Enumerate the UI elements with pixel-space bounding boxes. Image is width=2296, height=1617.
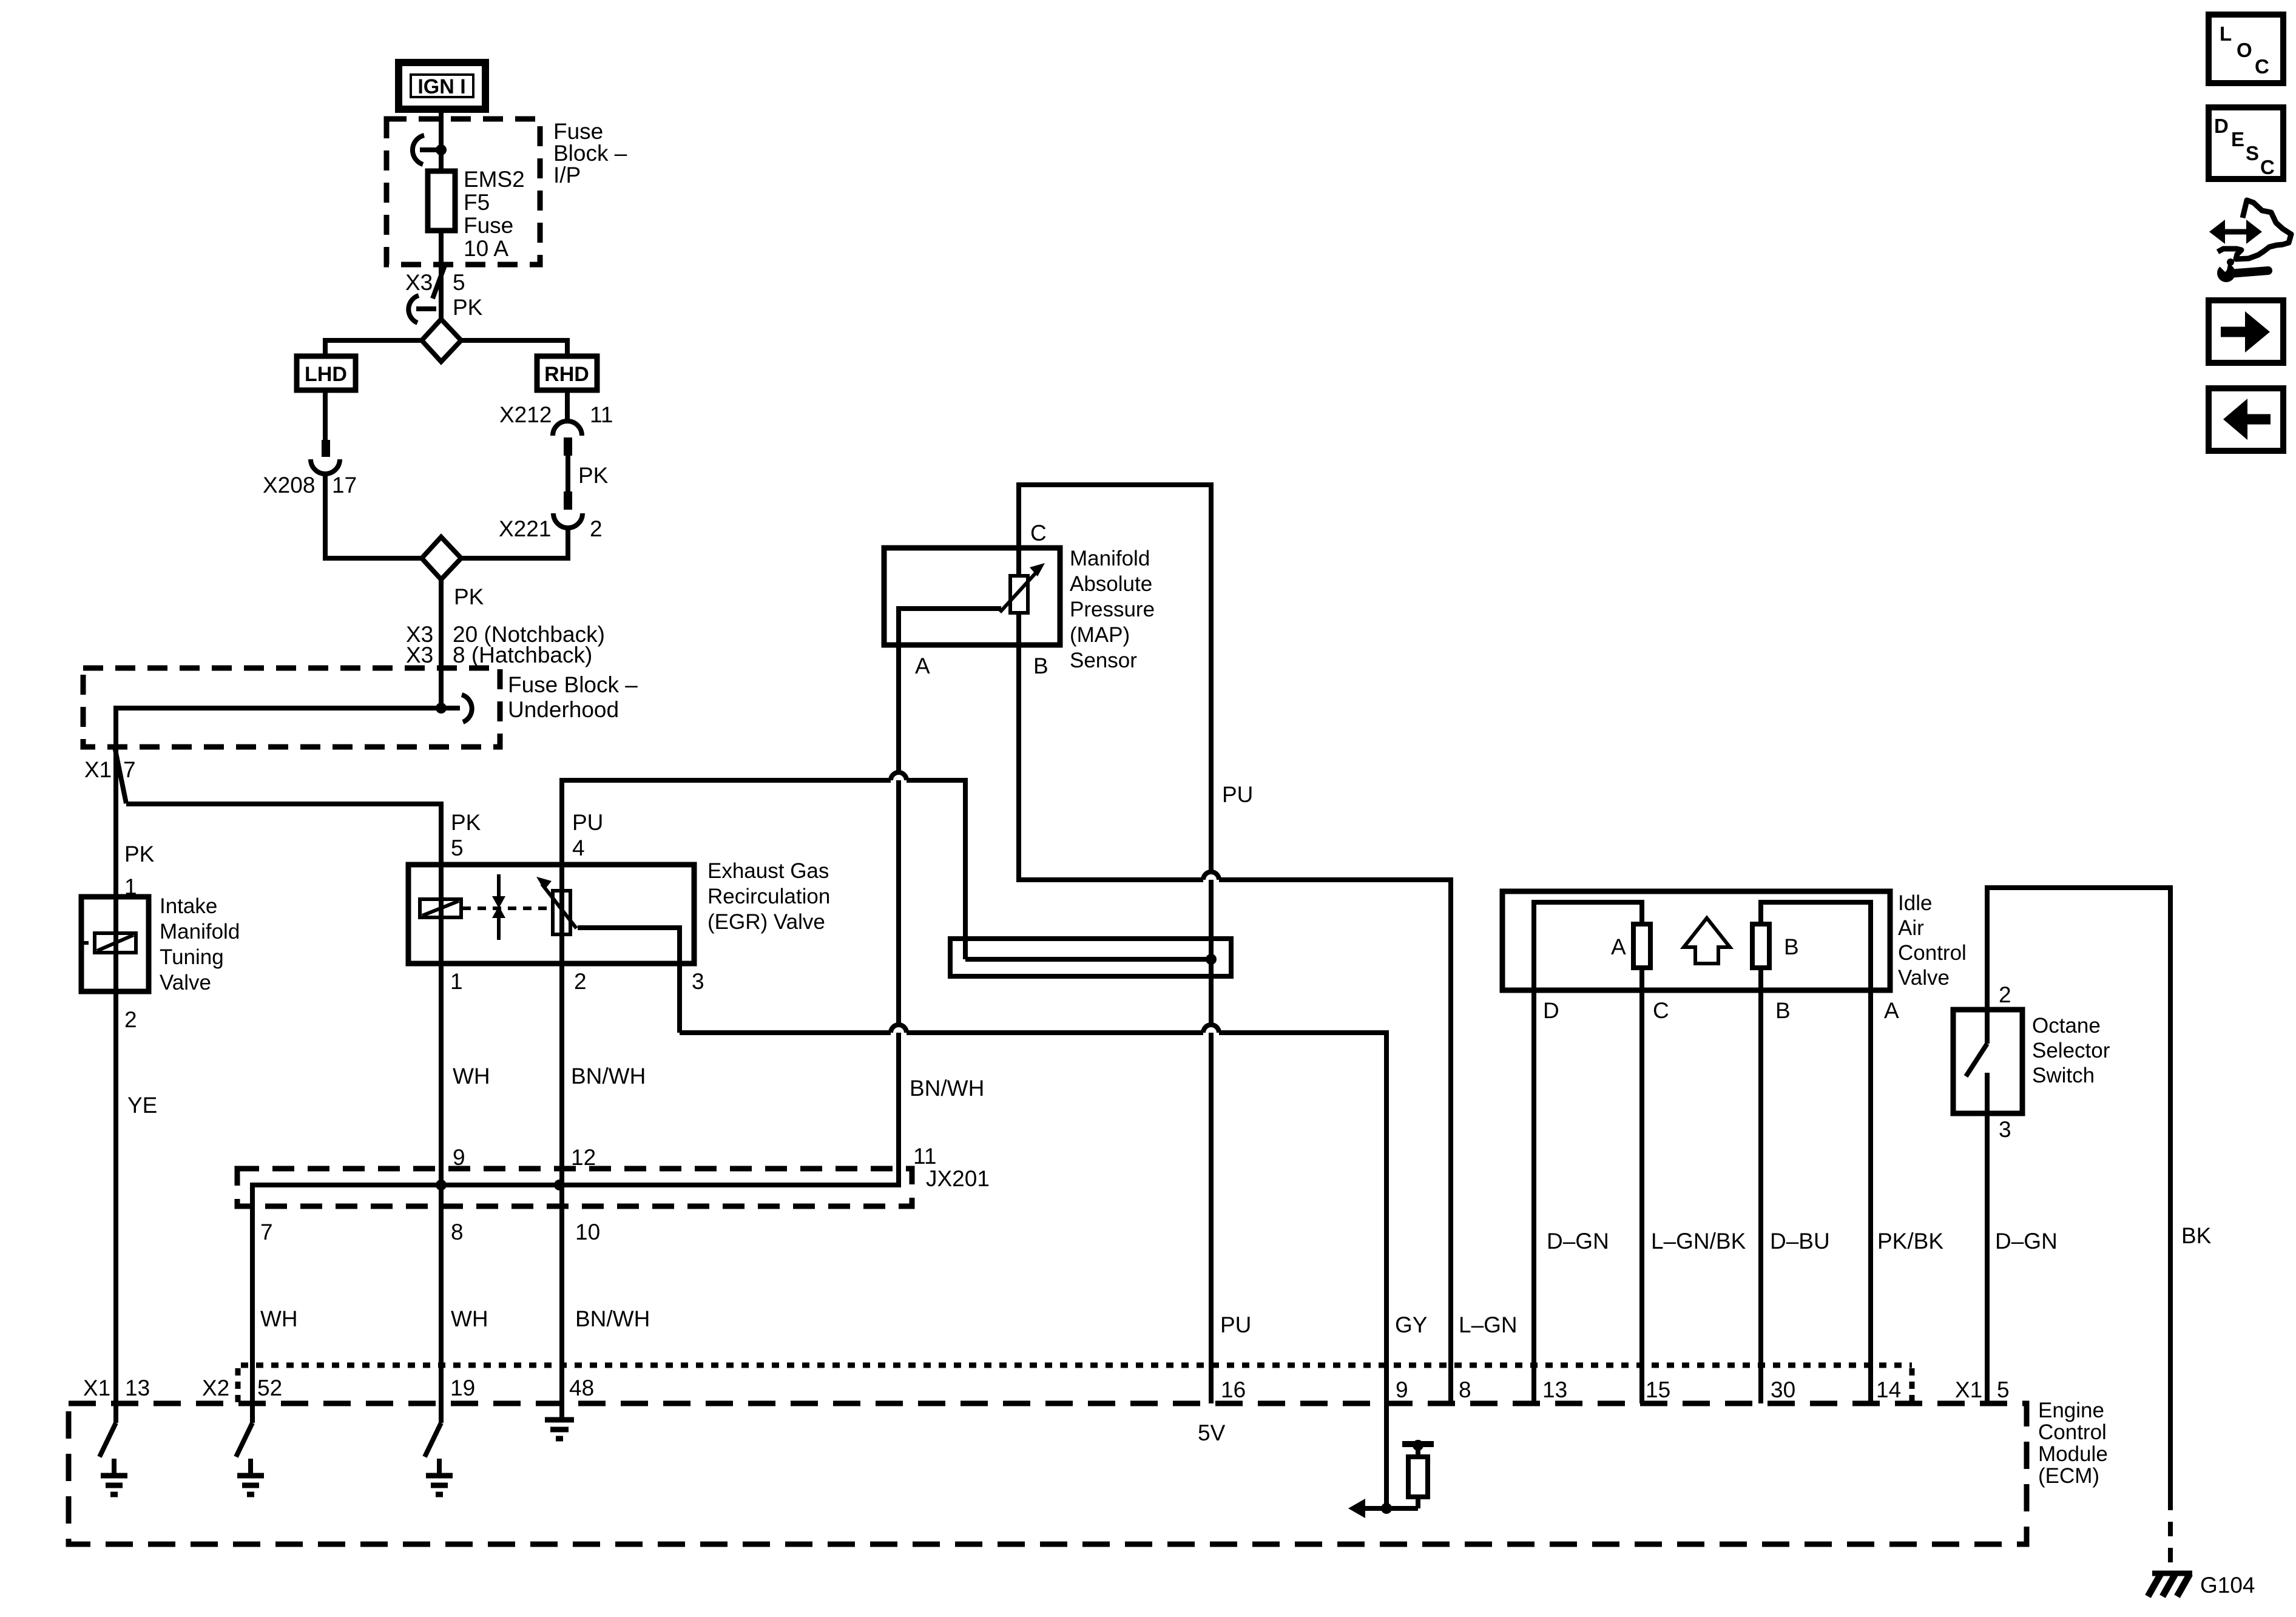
svg-text:8: 8: [451, 1220, 464, 1244]
svg-text:Fuse: Fuse: [553, 119, 603, 144]
label connector X3 pin 20 notchback: [406, 622, 605, 647]
shield box around 5V reference: [950, 939, 1231, 976]
node JX201 splice pin 9-8: [436, 1180, 447, 1190]
hop of PU/4 wire over MAP A wire: [891, 772, 907, 780]
svg-text:PU: PU: [1220, 1312, 1251, 1337]
wire EGR pin 2 down through JX201 to ECM pin 48: [559, 865, 564, 1419]
svg-text:Pressure: Pressure: [1070, 598, 1155, 621]
label Manifold Absolute Pressure MAP Sensor: [1070, 547, 1155, 672]
svg-text:D–BU: D–BU: [1770, 1229, 1830, 1254]
wire MAP pin C 5V reference PU to ECM pin 16: [1019, 485, 1211, 1403]
svg-text:10: 10: [575, 1220, 600, 1244]
ground G104: [2148, 1573, 2192, 1596]
svg-text:X208: X208: [263, 473, 315, 498]
svg-text:D: D: [2214, 115, 2229, 137]
svg-text:RHD: RHD: [544, 363, 589, 386]
EGR position sensor potentiometer: [536, 877, 576, 934]
svg-text:PK: PK: [454, 584, 484, 609]
svg-text:Module: Module: [2038, 1442, 2108, 1466]
svg-text:Recirculation: Recirculation: [707, 885, 830, 908]
svg-text:16: 16: [1221, 1377, 1246, 1402]
svg-text:8: 8: [1459, 1377, 1471, 1402]
wire splice to RHD option: [461, 340, 567, 356]
svg-text:L–GN/BK: L–GN/BK: [1651, 1229, 1746, 1254]
svg-text:WH: WH: [453, 1064, 490, 1089]
svg-text:L–GN: L–GN: [1459, 1312, 1518, 1337]
hop of L-GN wire over PU wire: [1203, 872, 1219, 880]
octane selector switch box: [1953, 1010, 2022, 1113]
svg-text:BN/WH: BN/WH: [575, 1306, 650, 1331]
svg-text:13: 13: [1542, 1377, 1567, 1402]
svg-text:O: O: [2237, 39, 2252, 61]
svg-text:4: 4: [572, 836, 585, 860]
svg-text:2: 2: [1999, 982, 2011, 1007]
connector X221 pin 2: [553, 491, 582, 528]
svg-text:Octane: Octane: [2032, 1014, 2101, 1038]
svg-text:Block –: Block –: [553, 141, 627, 166]
svg-text:Intake: Intake: [160, 894, 217, 918]
svg-text:Fuse: Fuse: [464, 213, 513, 238]
node JX201 splice pin 12-10: [554, 1180, 565, 1190]
svg-text:IGN I: IGN I: [417, 75, 465, 98]
svg-text:L: L: [2220, 22, 2232, 45]
ECM internal ground switch pin X2-52: [236, 1423, 264, 1494]
intake manifold tuning valve box: [81, 897, 149, 991]
svg-text:7: 7: [260, 1220, 273, 1244]
svg-text:A: A: [915, 653, 930, 678]
svg-text:Fuse Block –: Fuse Block –: [508, 672, 638, 697]
svg-text:Valve: Valve: [1898, 966, 1950, 990]
connector X208 pin 17: [311, 440, 340, 474]
svg-text:2: 2: [590, 516, 603, 541]
svg-text:48: 48: [569, 1376, 594, 1400]
label Engine Control Module ECM: [2038, 1399, 2108, 1488]
label Fuse Block I/P: [553, 119, 627, 187]
connector separator X1 right: [1909, 1368, 1915, 1403]
wire splice to LHD option: [325, 340, 422, 356]
svg-text:Control: Control: [1898, 941, 1967, 965]
svg-text:Idle: Idle: [1898, 891, 1932, 915]
svg-text:X3: X3: [406, 643, 433, 667]
fuse block underhood dashed outline: [83, 668, 500, 747]
svg-text:D: D: [1543, 998, 1559, 1023]
svg-text:Sensor: Sensor: [1070, 649, 1137, 672]
svg-text:I/P: I/P: [553, 163, 581, 187]
ECM connector dotted pin row: [241, 1363, 1912, 1368]
svg-text:E: E: [2231, 128, 2244, 150]
svg-text:S: S: [2246, 142, 2259, 164]
svg-text:WH: WH: [451, 1306, 488, 1331]
octane switch blade: [1966, 1044, 1987, 1076]
IAC pintle arrow: [1684, 918, 1730, 964]
svg-text:YE: YE: [127, 1093, 157, 1118]
svg-text:5: 5: [1997, 1377, 2010, 1402]
node junction underhood: [436, 703, 447, 714]
svg-text:D–GN: D–GN: [1547, 1229, 1609, 1254]
splice diamond S2: [422, 537, 461, 579]
node GY signal junction: [1381, 1503, 1392, 1514]
svg-text:X221: X221: [499, 516, 551, 541]
svg-text:WH: WH: [260, 1306, 298, 1331]
ECM internal ground pin 48: [545, 1420, 574, 1439]
intake valve solenoid coil: [83, 933, 136, 953]
svg-text:(EGR) Valve: (EGR) Valve: [707, 910, 825, 934]
hop of BN/WH wire over PU wire: [1203, 1025, 1219, 1033]
label Idle Air Control Valve: [1898, 891, 1967, 990]
wire into underhood junction: [439, 668, 444, 708]
ECM internal ground switch pin X1-13: [100, 1423, 127, 1494]
svg-text:X1: X1: [84, 757, 112, 782]
svg-text:7: 7: [123, 757, 136, 782]
fuse EMS2 F5 10 A: [428, 171, 455, 231]
wire octane pin 3 to ECM pin X1-5: [1985, 1073, 1990, 1403]
svg-text:Absolute: Absolute: [1070, 572, 1152, 596]
IAC coil A winding: [1534, 902, 1650, 990]
wire MAP pin B signal L-GN to ECM pin 8: [1019, 645, 1451, 1403]
wire IGN I feed down into fuse block: [439, 109, 444, 171]
svg-text:3: 3: [1999, 1117, 2011, 1142]
svg-text:13: 13: [125, 1376, 150, 1400]
wire PK between X212 and X221: [566, 456, 570, 491]
wire IAC pin D to ECM pin 13: [1531, 990, 1536, 1403]
svg-text:C: C: [2260, 156, 2275, 178]
svg-text:Underhood: Underhood: [508, 697, 619, 722]
option box LHD: [297, 356, 356, 390]
svg-text:X1: X1: [83, 1376, 110, 1400]
label connector X3 pin 8 hatchback: [406, 643, 592, 667]
svg-text:GY: GY: [1395, 1312, 1427, 1337]
wire MAP pin A low reference to JX201 pin 11 and pin 7: [252, 645, 899, 1423]
svg-text:Exhaust Gas: Exhaust Gas: [707, 859, 829, 883]
wire S2 down to fuse block underhood: [439, 579, 444, 668]
idle air control valve box: [1502, 891, 1890, 990]
sidebar icon arrow right: [2209, 300, 2283, 363]
svg-text:PK: PK: [453, 295, 483, 320]
wire IAC pin A to ECM pin 14: [1868, 990, 1873, 1403]
wire octane pin 2 D-GN over to BK ground wire: [1987, 888, 2170, 1496]
svg-text:X1: X1: [1955, 1377, 1982, 1402]
wire EGR pin 3 GY to ECM pin 9: [578, 928, 1386, 1508]
wire PU to EGR pin 4: [562, 780, 965, 959]
wire RHD down to connector X212: [565, 390, 570, 423]
svg-text:Manifold: Manifold: [160, 920, 240, 944]
svg-text:1: 1: [450, 969, 463, 994]
svg-text:A: A: [1884, 998, 1899, 1023]
label Octane Selector Switch: [2032, 1014, 2110, 1087]
svg-text:52: 52: [257, 1376, 282, 1400]
svg-text:B: B: [1775, 998, 1791, 1023]
wire IAC pin B to ECM pin 30: [1758, 968, 1763, 1403]
svg-text:15: 15: [1646, 1377, 1670, 1402]
svg-text:5V: 5V: [1198, 1420, 1226, 1445]
MAP sensor box: [884, 548, 1060, 645]
MAP sensor internal potentiometer: [899, 548, 1045, 645]
ECM internal ground switch pin 19: [425, 1423, 453, 1494]
label Exhaust Gas Recirculation EGR Valve: [707, 859, 830, 934]
svg-text:X212: X212: [499, 402, 552, 427]
svg-text:19: 19: [450, 1376, 475, 1400]
svg-text:30: 30: [1771, 1377, 1795, 1402]
svg-text:PK/BK: PK/BK: [1877, 1229, 1943, 1254]
connector X212 pin 11: [553, 421, 582, 456]
svg-text:14: 14: [1876, 1377, 1901, 1402]
hop of BN/WH wire over MAP A wire: [891, 1025, 907, 1033]
label Intake Manifold Tuning Valve: [160, 894, 240, 994]
svg-text:C: C: [1030, 521, 1047, 545]
IAC coil B winding: [1752, 902, 1871, 990]
svg-text:F5: F5: [464, 190, 490, 215]
svg-text:PU: PU: [1222, 782, 1253, 807]
fuse block I/P dashed outline: [387, 119, 540, 265]
svg-text:C: C: [2255, 55, 2269, 78]
wire X1-7 feed to EGR pin 5: [126, 804, 441, 865]
svg-text:BN/WH: BN/WH: [910, 1076, 984, 1101]
node shield drain to PU wire: [1206, 954, 1217, 965]
svg-text:9: 9: [1396, 1377, 1408, 1402]
svg-text:Control: Control: [2038, 1420, 2107, 1444]
wire IAC pin C to ECM pin 15: [1639, 968, 1644, 1403]
svg-text:A: A: [1611, 934, 1626, 959]
power feed box IGN I: [399, 62, 485, 109]
svg-text:Air: Air: [1898, 916, 1924, 940]
shield drain wire: [965, 957, 1211, 962]
splice diamond S1: [422, 319, 461, 362]
wire BK dashed continuation to ground: [2168, 1496, 2173, 1571]
svg-text:2: 2: [574, 969, 587, 994]
node junction at fuse block feed: [436, 144, 447, 155]
svg-text:(ECM): (ECM): [2038, 1464, 2099, 1488]
wire PK down to intake valve and ECM pin X1-13: [113, 747, 118, 1423]
svg-text:Engine: Engine: [2038, 1399, 2104, 1422]
svg-text:PU: PU: [572, 810, 603, 835]
svg-text:17: 17: [332, 473, 357, 498]
wire X208 to splice diamond S2: [325, 474, 422, 558]
svg-text:X2: X2: [202, 1376, 229, 1400]
wire LHD down to connector X208: [323, 390, 328, 440]
svg-text:Selector: Selector: [2032, 1039, 2110, 1062]
svg-text:BN/WH: BN/WH: [571, 1064, 646, 1089]
svg-text:B: B: [1784, 934, 1799, 959]
svg-text:JX201: JX201: [926, 1166, 990, 1191]
svg-text:D–GN: D–GN: [1995, 1229, 2058, 1254]
EGR solenoid coil: [420, 899, 551, 917]
svg-text:5: 5: [451, 836, 464, 860]
EGR valve pintle arrows: [492, 874, 505, 940]
label fuse EMS2 F5 Fuse 10 A: [464, 167, 525, 261]
ECM internal pullup resistor with 5V rail and measurement arrow: [1348, 1440, 1434, 1518]
svg-text:Valve: Valve: [160, 971, 211, 994]
svg-text:8 (Hatchback): 8 (Hatchback): [453, 643, 592, 667]
svg-text:(MAP): (MAP): [1070, 623, 1130, 647]
svg-text:2: 2: [124, 1007, 137, 1032]
wire EGR pin 1 down through JX201 to ECM pin 19: [439, 865, 444, 1423]
wire fuse output to splice diamond: [439, 231, 444, 320]
wire X221 to splice diamond S2: [461, 528, 568, 558]
svg-text:LHD: LHD: [305, 363, 347, 386]
svg-text:11: 11: [590, 402, 613, 427]
svg-text:3: 3: [692, 969, 704, 994]
svg-text:PK: PK: [124, 842, 155, 866]
connector X1 pin 7 pass-through: [115, 747, 126, 803]
svg-text:10 A: 10 A: [464, 236, 508, 261]
svg-text:PK: PK: [451, 810, 481, 835]
sidebar icon arrow left: [2209, 388, 2283, 451]
svg-text:Manifold: Manifold: [1070, 547, 1150, 570]
sidebar icon LOC: [2209, 15, 2283, 83]
svg-text:Tuning: Tuning: [160, 945, 224, 969]
sidebar icon vehicle with double arrow and wrench: [2209, 200, 2291, 282]
engine control module ECM dashed outline: [69, 1403, 2027, 1544]
svg-text:G104: G104: [2200, 1573, 2255, 1598]
wire underhood junction to connector X1: [116, 708, 441, 747]
option box RHD: [537, 356, 597, 390]
svg-text:B: B: [1033, 653, 1048, 678]
svg-text:11: 11: [913, 1144, 936, 1169]
svg-text:X3: X3: [405, 270, 433, 295]
terminal hook in fuse block: [413, 135, 437, 164]
label Fuse Block Underhood: [508, 672, 638, 722]
terminal hook underhood: [441, 695, 472, 722]
svg-text:C: C: [1653, 998, 1669, 1023]
EGR valve box: [408, 865, 694, 964]
svg-text:Switch: Switch: [2032, 1064, 2095, 1087]
svg-text:5: 5: [453, 270, 465, 295]
svg-text:BK: BK: [2181, 1223, 2212, 1248]
connector separator X2: [235, 1368, 241, 1403]
svg-text:EMS2: EMS2: [464, 167, 525, 192]
sidebar icon DESC: [2209, 107, 2283, 179]
junction block JX201 dashed outline: [237, 1169, 912, 1206]
connector X3 pin 5 pass-through: [408, 264, 445, 323]
svg-text:PK: PK: [578, 463, 609, 488]
